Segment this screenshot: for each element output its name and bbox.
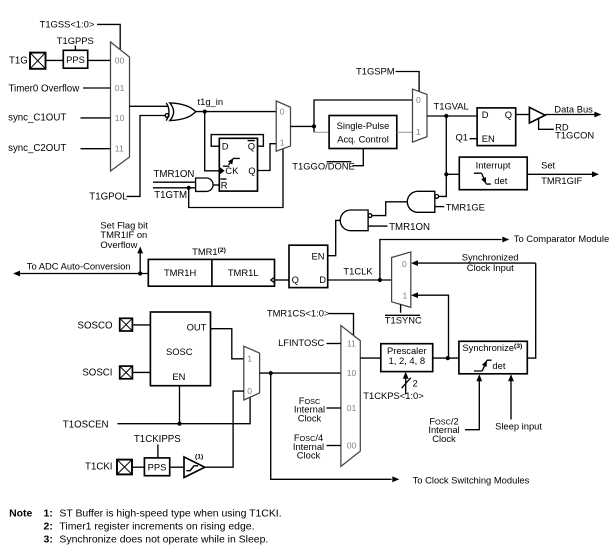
wire sync_C2OUT to MUX1 input 11 xyxy=(81,148,111,150)
svg-text:det: det xyxy=(494,175,507,186)
svg-text:0: 0 xyxy=(280,107,285,117)
svg-text:TMR1ON: TMR1ON xyxy=(389,222,430,233)
wire sync bypass to MUX4 input 1 with arrow xyxy=(418,295,449,358)
wire RD strobe from U4 xyxy=(539,119,554,130)
wire FOSC/4 to MUX6 input 00 xyxy=(327,445,341,447)
svg-text:sync_C1OUT: sync_C1OUT xyxy=(8,112,66,123)
wire TMR1ON to G4 xyxy=(368,225,387,227)
bubble on XOR G1 lower input xyxy=(165,114,169,118)
svg-text:OUT: OUT xyxy=(187,322,207,333)
svg-text:1, 2, 4, 8: 1, 2, 4, 8 xyxy=(389,355,425,366)
bus width slash and value 2 xyxy=(402,378,411,388)
svg-text:Q: Q xyxy=(248,141,255,152)
svg-text:2: 2 xyxy=(413,377,418,388)
latch U3 T1GCON read latch xyxy=(477,108,516,146)
register TMR1 (TMR1H:TMR1L) xyxy=(148,259,274,286)
wire G2 output to FF1 R xyxy=(213,184,219,186)
wire MUX5 output to MUX6 input 10 xyxy=(260,372,341,374)
wire U2 to T1GGO/DONE xyxy=(353,149,364,166)
wire T1CLK to comparator module with arrow xyxy=(380,240,502,281)
junction overflow node xyxy=(138,271,142,275)
wire SOSCI to SOSC xyxy=(132,371,150,373)
pin SOSCO pad symbol xyxy=(120,318,133,331)
wire (gray) into U2 Single-Pulse xyxy=(314,131,329,133)
svg-text:T1CKPS<1:0>: T1CKPS<1:0> xyxy=(363,390,424,401)
svg-text:0: 0 xyxy=(247,386,252,396)
svg-text:T1OSCEN: T1OSCEN xyxy=(63,420,109,431)
pin FF1 CK edge triangle xyxy=(220,167,225,174)
svg-text:01: 01 xyxy=(115,83,125,93)
svg-text:1: 1 xyxy=(416,127,421,137)
mux MUX1 gate source select (T1GSS) xyxy=(111,42,130,171)
wire T1OSCEN to MUX5 select xyxy=(118,397,251,424)
pin T1G pad symbol xyxy=(30,53,46,69)
svg-text:EN: EN xyxy=(312,250,325,261)
icon FF1 rising edge symbol xyxy=(223,158,240,166)
block SOSC secondary oscillator xyxy=(150,312,210,386)
svg-text:T1SYNC: T1SYNC xyxy=(385,315,422,326)
icon U5 falling edge symbol xyxy=(474,173,491,184)
wire U4 to Data Bus with arrow xyxy=(545,114,595,116)
wire synchronized clock to MUX4 input 0 with arrow xyxy=(418,262,536,264)
block PPS2 (T1CKI input PPS) xyxy=(144,458,169,476)
svg-text:1: 1 xyxy=(403,290,408,300)
svg-text:10: 10 xyxy=(115,113,125,123)
wire MUX6 output to prescaler U8 xyxy=(360,357,381,359)
svg-text:Clock: Clock xyxy=(297,450,321,461)
junction T1OSCEN / SOSC EN xyxy=(177,422,181,426)
wire MUX4 select stub xyxy=(400,304,402,312)
svg-text:0: 0 xyxy=(402,259,407,269)
svg-text:TMR1ON: TMR1ON xyxy=(154,169,195,180)
wire U5 output Set TMR1GIF with arrow xyxy=(527,173,592,175)
wire U6 D input T1CLK to MUX4 output xyxy=(328,279,392,281)
wire T1G pad to PPS1 xyxy=(46,59,64,61)
block U5 Interrupt detector xyxy=(459,157,527,190)
wire T1GPPS to PPS1 xyxy=(74,46,76,51)
svg-text:t1g_in: t1g_in xyxy=(198,96,224,107)
svg-text:Q1: Q1 xyxy=(456,131,469,142)
svg-text:Q: Q xyxy=(292,274,299,285)
svg-text:3:: 3: xyxy=(44,534,53,545)
svg-text:Overflow: Overflow xyxy=(100,239,137,250)
junction prescaled clock node xyxy=(446,356,450,360)
svg-text:R: R xyxy=(221,180,228,191)
wire MUX2 node over U2 to MUX3 input 0 xyxy=(314,100,413,126)
svg-text:PPS: PPS xyxy=(66,54,85,65)
svg-text:T1GPOL: T1GPOL xyxy=(89,192,128,203)
svg-text:T1CKIPPS: T1CKIPPS xyxy=(134,434,181,445)
gate G2 AND (TMR1ON,T1GTM) xyxy=(196,178,214,191)
svg-text:0: 0 xyxy=(416,95,421,105)
wire overflow flag up arrow xyxy=(139,253,141,274)
svg-text:Set: Set xyxy=(541,160,555,171)
wire G4 output to U6 EN xyxy=(328,220,341,255)
gate G1 XOR (gate polarity) xyxy=(166,103,169,121)
junction MUX2 output node xyxy=(312,124,316,128)
wire t1g_in to FF1 CK xyxy=(205,112,220,171)
svg-text:Synchronize(3): Synchronize(3) xyxy=(462,342,522,353)
flip-flop FF1 toggle D-FF xyxy=(219,138,257,191)
svg-text:SOSCI: SOSCI xyxy=(82,367,112,378)
wire T1GSS select to MUX1 xyxy=(97,24,120,49)
pin TMR1L clock arrow xyxy=(271,277,275,283)
svg-text:TMR1CS<1:0>: TMR1CS<1:0> xyxy=(267,308,330,319)
svg-text:00: 00 xyxy=(347,440,357,450)
mux MUX2 gate toggle mode (T1GTM) xyxy=(276,101,290,151)
svg-text:01: 01 xyxy=(347,403,357,413)
svg-text:1: 1 xyxy=(280,137,285,147)
block U8 Prescaler 1,2,4,8 xyxy=(381,344,433,372)
wire SOSC EN down to T1OSCEN xyxy=(179,386,181,424)
wire TMR1CS to MUX6 select xyxy=(329,314,354,336)
pin T1CKI pad symbol xyxy=(117,460,132,475)
pin SOSCI pad symbol xyxy=(120,366,133,379)
block PPS1 (T1G input PPS) xyxy=(63,50,87,68)
wire FF1 Q to MUX2 input 1 xyxy=(258,144,277,171)
svg-text:T1CLK: T1CLK xyxy=(343,266,373,277)
junction t1g_in xyxy=(203,110,207,114)
wire (gray) U2 to MUX3 input 1 xyxy=(397,131,413,133)
svg-text:SOSCO: SOSCO xyxy=(78,321,113,332)
mux MUX6 clock source select (TMR1CS) xyxy=(341,326,360,467)
svg-text:Synchronize does not operate w: Synchronize does not operate while in Sl… xyxy=(59,534,268,545)
svg-text:T1GVAL: T1GVAL xyxy=(434,100,469,111)
gate G4 mirrored AND (TMR1ON enable) xyxy=(340,210,368,231)
wire U6 Q to TMR1L clock xyxy=(275,279,290,281)
svg-text:1:: 1: xyxy=(44,508,53,519)
wire TMR1 to ADC with left arrow xyxy=(20,273,148,275)
svg-text:Clock: Clock xyxy=(432,433,456,444)
svg-text:Sleep input: Sleep input xyxy=(495,420,542,431)
svg-text:T1GSPM: T1GSPM xyxy=(356,65,395,76)
buffer U4 data bus driver xyxy=(529,107,545,123)
svg-text:D: D xyxy=(319,274,326,285)
wire T1GTM junction to MUX2 select xyxy=(189,149,283,208)
wire PPS2 to ST buffer xyxy=(170,466,184,468)
wire T1GVAL down to gate G3 bubble xyxy=(439,116,447,196)
buffer U7 Schmitt trigger with note 1 superscript xyxy=(184,457,205,478)
svg-text:T1GCON: T1GCON xyxy=(555,130,594,141)
wire MUX3 output T1GVAL to latch U3 D xyxy=(427,115,477,117)
wire T1GSPM to MUX3 select xyxy=(396,72,420,92)
svg-text:TMR1L: TMR1L xyxy=(228,267,259,278)
svg-text:Note: Note xyxy=(9,508,32,519)
wire FF1 Qbar feedback to D xyxy=(211,135,263,147)
wire T1CKPS select up arrow into U8 xyxy=(405,378,407,394)
wire FOSC to MUX6 input 01 xyxy=(327,407,341,409)
svg-text:TMR1GIF: TMR1GIF xyxy=(541,175,582,186)
svg-text:Single-Pulse: Single-Pulse xyxy=(337,120,390,131)
svg-text:00: 00 xyxy=(115,55,125,65)
svg-text:T1CKI: T1CKI xyxy=(85,462,112,473)
latch U6 TMR1 clock enable xyxy=(289,245,328,287)
wire junction to U5 Interrupt det xyxy=(446,173,459,175)
svg-text:Q: Q xyxy=(248,165,255,176)
svg-text:(1): (1) xyxy=(195,453,203,460)
svg-text:Interrupt: Interrupt xyxy=(476,160,511,171)
svg-text:sync_C2OUT: sync_C2OUT xyxy=(8,143,66,154)
icon U9 rising edge symbol xyxy=(474,360,492,371)
svg-text:T1GTM: T1GTM xyxy=(154,190,187,201)
mux MUX5 sosc/t1cki select xyxy=(244,346,260,400)
wire T1GTM to AND G2 xyxy=(153,187,196,189)
svg-text:TMR1H: TMR1H xyxy=(164,267,196,278)
wire Timer0 Overflow to MUX1 input 01 xyxy=(83,87,111,89)
svg-text:ST Buffer is high-speed type w: ST Buffer is high-speed type when using … xyxy=(59,508,281,519)
wire MUX2 output xyxy=(291,125,315,127)
svg-text:TMR1GE: TMR1GE xyxy=(446,201,485,212)
wire T1CKIPPS to PPS2 xyxy=(157,445,159,458)
mux MUX4 T1SYNC select xyxy=(392,252,411,308)
svg-text:2:: 2: xyxy=(44,521,53,532)
wire SOSCO to SOSC xyxy=(132,324,150,326)
svg-text:EN: EN xyxy=(482,133,495,144)
junction T1CLK node xyxy=(378,278,382,282)
wire U8 output to U9 Synchronize xyxy=(433,357,459,359)
wire G1 output to MUX2 input 0 xyxy=(196,111,277,113)
svg-text:det: det xyxy=(492,360,505,371)
svg-text:11: 11 xyxy=(347,338,356,348)
junction interrupt input node xyxy=(444,172,448,176)
wire TMR1GE to G3 xyxy=(435,206,445,208)
wire Q1 to U3 EN xyxy=(470,138,478,140)
block U2 Single-Pulse Acq. Control xyxy=(329,116,397,149)
svg-text:T1G: T1G xyxy=(9,55,28,66)
wire U7 output to MUX5 input 0 xyxy=(205,391,244,467)
bubble G4 inverted input xyxy=(368,214,372,218)
svg-text:Data Bus: Data Bus xyxy=(554,103,593,114)
wire T1GPOL to XOR G1 inverted input xyxy=(127,116,166,197)
svg-text:SOSC: SOSC xyxy=(166,346,193,357)
gate G3 mirrored AND (TMR1GE enable) xyxy=(407,191,435,212)
svg-text:LFINTOSC: LFINTOSC xyxy=(278,337,324,348)
svg-text:D: D xyxy=(482,109,489,120)
wire PPS1 to MUX1 input 00 xyxy=(88,59,111,61)
wire G3 output to G4 bubble xyxy=(372,202,407,216)
svg-text:1: 1 xyxy=(247,354,252,364)
svg-text:PPS: PPS xyxy=(148,461,167,472)
svg-text:D: D xyxy=(222,141,229,152)
wire SOSC OUT to MUX5 input 1 xyxy=(211,329,244,359)
wire Sleep input into U9 with up arrow xyxy=(510,380,512,419)
wire FOSC/2 clock into U9 with up arrow xyxy=(465,380,479,429)
junction T1GVAL node xyxy=(444,114,448,118)
svg-text:T1GPPS: T1GPPS xyxy=(57,35,94,46)
wire LFINTOSC to MUX6 input 11 xyxy=(327,343,341,345)
svg-text:To ADC Auto-Conversion: To ADC Auto-Conversion xyxy=(27,260,131,271)
wire T1CKI pad to PPS2 xyxy=(132,466,144,468)
junction on T1GTM wire xyxy=(187,186,191,190)
wire MUX5 node to clock switching modules with arrow xyxy=(271,373,392,479)
wire MUX2 node stub down xyxy=(313,126,315,132)
svg-text:Timer1 register increments on: Timer1 register increments on rising edg… xyxy=(59,521,254,532)
svg-text:EN: EN xyxy=(172,371,185,382)
wire TMR1ON to AND G2 xyxy=(153,181,196,183)
svg-text:Clock Input: Clock Input xyxy=(467,262,514,273)
wire U9 output loop to MUX4 input 0 xyxy=(527,263,535,358)
svg-text:Timer0 Overflow: Timer0 Overflow xyxy=(9,83,81,94)
wire U3 Q to buffer U4 xyxy=(516,114,530,116)
svg-text:To Clock Switching Modules: To Clock Switching Modules xyxy=(413,474,530,485)
svg-text:Q: Q xyxy=(505,109,512,120)
svg-text:10: 10 xyxy=(347,368,357,378)
svg-text:To Comparator Module: To Comparator Module xyxy=(514,233,609,244)
bubble G3 inverted input xyxy=(435,195,439,199)
svg-text:11: 11 xyxy=(115,144,124,154)
svg-text:Clock: Clock xyxy=(298,412,322,423)
svg-text:T1GSS<1:0>: T1GSS<1:0> xyxy=(40,19,95,30)
svg-text:Acq. Control: Acq. Control xyxy=(337,133,389,144)
wire sync_C1OUT to MUX1 input 10 xyxy=(81,117,111,119)
mux MUX3 single pulse mode (T1GSPM) xyxy=(413,89,428,142)
wire MUX1 output to XOR G1 xyxy=(130,105,169,107)
block U9 Synchronize with note 3 superscript xyxy=(459,341,527,374)
junction MUX5 output node xyxy=(269,371,273,375)
